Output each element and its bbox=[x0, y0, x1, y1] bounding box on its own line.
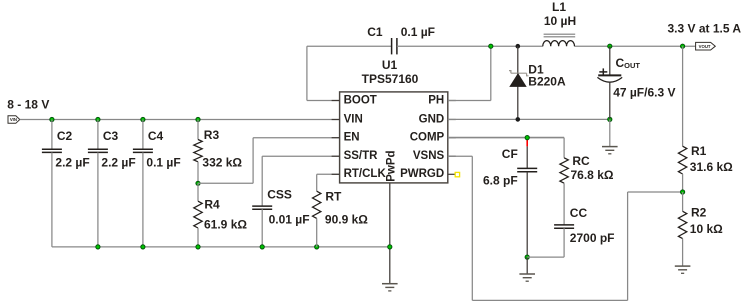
capacitor C1 bbox=[391, 38, 393, 54]
svg-text:6.8 pF: 6.8 pF bbox=[483, 174, 518, 188]
resistor R2 bbox=[682, 192, 684, 211]
svg-text:VIN: VIN bbox=[10, 117, 17, 122]
node R1/R2 junction bbox=[681, 190, 685, 194]
svg-text:R2: R2 bbox=[691, 206, 707, 220]
svg-text:47 µF/6.3 V: 47 µF/6.3 V bbox=[613, 86, 675, 100]
node input rail / R3 bbox=[196, 117, 200, 121]
ground Cout bbox=[602, 146, 618, 148]
node input rail / C2 bbox=[50, 117, 54, 121]
svg-text:61.9 kΩ: 61.9 kΩ bbox=[204, 217, 247, 231]
capacitor CF bbox=[526, 146, 528, 168]
ground CF/CC bbox=[526, 257, 528, 274]
wire PH top rail bbox=[491, 45, 543, 47]
svg-text:EN: EN bbox=[344, 132, 360, 144]
svg-text:C1: C1 bbox=[367, 25, 383, 39]
node D1 bottom bbox=[516, 117, 521, 122]
capacitor CSS bbox=[262, 155, 339, 157]
svg-text:RT: RT bbox=[325, 190, 342, 204]
svg-text:2700 pF: 2700 pF bbox=[570, 231, 615, 245]
wire VSNS feedback bbox=[448, 155, 473, 157]
wire input rail bbox=[20, 119, 340, 121]
svg-text:C4: C4 bbox=[148, 129, 164, 143]
svg-text:PWRGD: PWRGD bbox=[400, 168, 444, 180]
node bottom rail / C4 bbox=[141, 245, 145, 249]
node Cout bottom bbox=[608, 117, 612, 121]
wire PwPd to ground bbox=[389, 183, 391, 284]
svg-text:L1: L1 bbox=[552, 0, 566, 14]
svg-text:0.1 µF: 0.1 µF bbox=[146, 156, 180, 170]
svg-text:RT/CLK: RT/CLK bbox=[344, 168, 387, 180]
svg-text:B220A: B220A bbox=[528, 75, 566, 89]
wire CF red segment bbox=[526, 138, 528, 146]
svg-text:76.8 kΩ: 76.8 kΩ bbox=[571, 168, 614, 182]
svg-text:8 - 18 V: 8 - 18 V bbox=[7, 98, 49, 112]
pin stub left y=174.3 bbox=[332, 173, 340, 175]
pin stub left y=119.5 bbox=[332, 119, 340, 121]
resistor R3 bbox=[197, 120, 199, 140]
pin PWRGD open (yellow marker) bbox=[455, 172, 459, 176]
node rail/R1 bbox=[681, 44, 685, 48]
ground PwPd bbox=[382, 283, 398, 285]
node L1/Cout bbox=[608, 44, 612, 48]
node input rail / C3 bbox=[96, 117, 100, 121]
node bottom rail / R4 bbox=[196, 245, 200, 249]
wire Cout to ground bbox=[609, 119, 611, 146]
pin stub right y=100.5 bbox=[448, 100, 456, 102]
svg-text:VOUT: VOUT bbox=[699, 44, 711, 49]
inductor L1 bbox=[544, 33, 576, 35]
svg-text:31.6 kΩ: 31.6 kΩ bbox=[690, 160, 733, 174]
diode D1 B220A bbox=[517, 46, 519, 119]
svg-text:BOOT: BOOT bbox=[344, 94, 377, 106]
svg-text:CC: CC bbox=[570, 206, 588, 220]
pin stub left y=156.2 bbox=[332, 155, 340, 157]
ground R2 bbox=[675, 265, 691, 267]
capacitor CC bbox=[554, 224, 574, 226]
svg-text:10 µH: 10 µH bbox=[544, 14, 576, 28]
wire GND net bbox=[448, 118, 610, 120]
resistor R4 bbox=[197, 183, 199, 201]
node C1/PH bbox=[489, 44, 493, 48]
node input rail / C4 bbox=[141, 117, 145, 121]
svg-text:COMP: COMP bbox=[410, 132, 445, 144]
wire BOOT to C1 bbox=[307, 100, 340, 102]
pin stub right y=119.5 bbox=[448, 119, 456, 121]
op-amp U1 TPS57160 body bbox=[340, 92, 448, 183]
capacitor C3 bbox=[97, 120, 99, 150]
svg-text:VSNS: VSNS bbox=[413, 150, 445, 162]
svg-text:U1: U1 bbox=[382, 58, 398, 72]
svg-text:R3: R3 bbox=[204, 128, 220, 142]
wire COMP net bbox=[448, 137, 564, 139]
wire bottom rail bbox=[52, 246, 390, 248]
svg-text:SS/TR: SS/TR bbox=[344, 150, 379, 162]
capacitor Cout (polarized) bbox=[609, 46, 611, 75]
capacitor C2 bbox=[51, 120, 53, 150]
svg-text:TPS57160: TPS57160 bbox=[362, 72, 419, 86]
svg-text:VIN: VIN bbox=[344, 113, 363, 125]
resistor RT bbox=[317, 173, 340, 175]
svg-text:0.1 µF: 0.1 µF bbox=[401, 25, 435, 39]
svg-text:3.3 V at 1.5 A: 3.3 V at 1.5 A bbox=[668, 21, 742, 35]
svg-text:0.01 µF: 0.01 µF bbox=[269, 213, 310, 227]
pin stub left y=100.5 bbox=[332, 100, 340, 102]
wire PH riser bbox=[448, 100, 491, 102]
node CF/CC bottom bbox=[525, 255, 529, 259]
svg-text:PH: PH bbox=[428, 94, 444, 106]
pin stub left y=137.7 bbox=[332, 137, 340, 139]
svg-text:C3: C3 bbox=[103, 129, 119, 143]
svg-text:2.2 µF: 2.2 µF bbox=[55, 156, 89, 170]
node bottom rail / CSS bbox=[260, 245, 264, 249]
svg-text:GND: GND bbox=[419, 113, 445, 125]
port VOUT bbox=[696, 42, 716, 50]
pin stub right y=174.3 bbox=[448, 173, 456, 175]
wire EN to R3/R4 junction bbox=[198, 182, 253, 184]
capacitor C4 bbox=[142, 120, 144, 150]
svg-text:332 kΩ: 332 kΩ bbox=[202, 155, 242, 169]
svg-text:R4: R4 bbox=[204, 197, 220, 211]
svg-text:PwPd: PwPd bbox=[386, 150, 398, 181]
svg-text:RC: RC bbox=[572, 154, 590, 168]
node bottom rail / C3 bbox=[96, 245, 100, 249]
wire C1 to PH riser bbox=[397, 45, 491, 47]
pin stub right y=156.2 bbox=[448, 155, 456, 157]
pin stub right y=137.7 bbox=[448, 137, 456, 139]
svg-text:90.9 kΩ: 90.9 kΩ bbox=[325, 213, 368, 227]
node R3/R4 junction bbox=[196, 181, 200, 185]
resistor R1 bbox=[682, 46, 684, 146]
svg-text:2.2 µF: 2.2 µF bbox=[101, 156, 135, 170]
resistor RC bbox=[563, 138, 565, 158]
node COMP/CF bbox=[525, 136, 529, 140]
node D1 top bbox=[516, 44, 521, 49]
node bottom rail / PwPd bbox=[388, 245, 392, 249]
node bottom rail / RT bbox=[315, 245, 319, 249]
svg-text:CSS: CSS bbox=[267, 187, 292, 201]
svg-text:C2: C2 bbox=[57, 129, 73, 143]
svg-text:10 kΩ: 10 kΩ bbox=[690, 222, 723, 236]
port VIN bbox=[8, 116, 20, 124]
svg-text:CF: CF bbox=[502, 147, 518, 161]
svg-text:R1: R1 bbox=[691, 144, 707, 158]
